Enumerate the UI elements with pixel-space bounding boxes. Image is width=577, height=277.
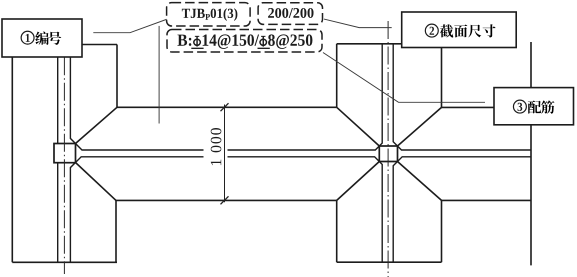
wire: horizontal footing top edge (mid) — [117, 106, 337, 108]
wire: chamfer right-int top-right — [398, 107, 442, 146]
wire: horizontal footing bottom edge (right) — [442, 199, 532, 201]
node: TJBp01(3) label — [182, 9, 190, 18]
wire: left footing right edge lower — [115, 200, 117, 262]
wire: footing right end edge — [530, 42, 532, 265]
wire: chamfer left-top — [76, 107, 118, 143]
node: right column square — [379, 146, 397, 162]
node: label box 1 bianhao — [2, 19, 82, 57]
wire: leader 200/200 pointer — [324, 19, 392, 28]
wire: left beam right edge lower — [70, 163, 75, 263]
wire: dim tick bottom — [221, 196, 229, 204]
node: rebar spec label — [177, 35, 187, 46]
wire: leader TJBp01 pointer — [158, 26, 160, 124]
wire: right footing right edge upper — [441, 44, 443, 108]
node: label box 2 jiemianchicun — [402, 12, 517, 48]
node: circled number 3 — [513, 100, 526, 113]
node: text bianhao — [35, 32, 48, 45]
wire: right beam right edge lower — [393, 162, 397, 263]
node: 200/200 label — [268, 8, 274, 18]
node: left column square — [54, 144, 76, 163]
wire: left footing right edge upper — [116, 45, 118, 108]
node: TJBp01(3) dashed box — [167, 3, 251, 26]
wire: leader from label 1 — [93, 17, 173, 33]
node: circled number 2 — [425, 24, 438, 37]
wire: horizontal beam top edge left — [76, 144, 380, 151]
wire: left beam right edge upper — [70, 57, 75, 143]
wire: right footing left edge lower — [336, 200, 338, 262]
node: dimension text mask — [204, 118, 228, 174]
node: circled number 1 — [21, 31, 34, 44]
wire: right beam centerline — [387, 21, 389, 277]
wire: horizontal footing top edge (right) — [442, 106, 532, 108]
node: 200/200 dashed box — [258, 3, 322, 25]
wire: right footing top edge — [337, 43, 442, 45]
node: dimension 1 000 — [211, 128, 222, 165]
wire: left footing top edge — [82, 44, 118, 46]
wire: left beam left edge lower — [57, 163, 59, 263]
wire: left beam left edge upper — [57, 57, 59, 143]
wire: right footing bottom edge — [337, 261, 442, 263]
wire: chamfer right-int bottom-right — [398, 162, 442, 201]
wire: horizontal footing bottom edge (mid) — [116, 199, 337, 201]
wire: chamfer right-int top-left — [337, 107, 380, 146]
wire: right footing left edge upper — [336, 44, 338, 108]
wire: chamfer right-int bottom-left — [337, 162, 380, 201]
node: text peijin — [528, 101, 541, 114]
wire: left footing left edge — [11, 57, 13, 262]
wire: horizontal beam bottom edge left — [76, 157, 380, 163]
wire: rebar symbol underline — [258, 47, 270, 49]
wire: dimension line — [224, 105, 226, 203]
wire: horizontal beam bottom edge right — [398, 157, 532, 162]
wire: right beam left edge upper — [379, 44, 382, 146]
wire: right footing right edge lower — [441, 200, 443, 262]
wire: dim tick top — [221, 103, 229, 111]
node: text jiemianchicun — [440, 24, 453, 37]
wire: left footing bottom edge — [12, 261, 117, 263]
wire: leader label 3 pointer — [323, 53, 485, 103]
node: label box 3 peijin — [494, 88, 574, 125]
wire: right beam left edge lower — [379, 162, 382, 263]
wire: right beam right edge upper — [393, 44, 397, 146]
wire: chamfer left-bottom — [76, 163, 117, 201]
wire: horizontal beam top edge right — [398, 146, 532, 150]
wire: rebar symbol underline — [191, 47, 203, 49]
node: rebar spec dashed box — [167, 30, 322, 53]
wire: left beam centerline — [63, 57, 65, 274]
